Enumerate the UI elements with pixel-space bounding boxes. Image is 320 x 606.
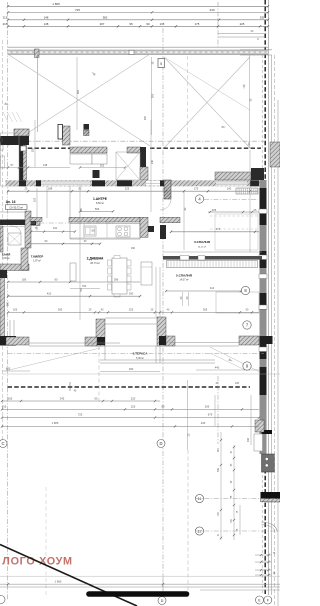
svg-text:БАНЯ: БАНЯ [2,253,11,257]
svg-text:190: 190 [131,247,136,250]
svg-text:265: 265 [203,308,208,312]
svg-text:215: 215 [3,15,8,19]
svg-text:СА 90,72 м²: СА 90,72 м² [9,206,23,209]
svg-text:260: 260 [7,301,10,306]
svg-text:440: 440 [215,366,220,370]
svg-text:135: 135 [160,22,165,26]
svg-text:3.СПАЛНЯ: 3.СПАЛНЯ [194,240,211,244]
svg-text:430: 430 [209,8,214,12]
svg-text:225: 225 [129,308,134,312]
svg-text:175: 175 [195,22,200,26]
svg-text:430: 430 [201,421,206,425]
svg-text:1 865: 1 865 [55,580,62,584]
svg-text:250: 250 [144,115,147,120]
svg-text:535: 535 [260,16,265,19]
svg-text:3,96 м²: 3,96 м² [2,257,10,260]
svg-text:290: 290 [129,292,134,296]
svg-text:105: 105 [13,308,18,312]
svg-text:148: 148 [44,15,49,19]
svg-text:225: 225 [131,404,136,408]
svg-text:C: C [1,441,4,446]
svg-text:679: 679 [208,412,213,416]
svg-text:265: 265 [205,404,210,408]
svg-text:95: 95 [129,22,133,26]
svg-text:1 865: 1 865 [52,2,60,6]
svg-text:410: 410 [210,286,215,290]
svg-text:265: 265 [58,308,63,312]
svg-text:14,07 м²: 14,07 м² [179,279,188,282]
svg-text:103: 103 [34,197,37,202]
svg-text:207: 207 [100,22,105,26]
svg-text:14,15 м²: 14,15 м² [198,246,207,249]
svg-text:185: 185 [22,277,27,281]
svg-text:185: 185 [32,147,35,152]
svg-text:Ап. 16: Ап. 16 [6,200,16,204]
svg-text:D: D [161,599,164,603]
svg-text:725: 725 [75,8,80,12]
svg-text:700: 700 [80,287,83,292]
svg-text:245: 245 [60,396,65,400]
svg-text:140: 140 [227,187,232,191]
svg-text:883: 883 [6,366,11,370]
svg-text:148: 148 [44,22,49,26]
svg-text:60: 60 [95,396,98,400]
svg-text:5: 5 [160,62,162,66]
svg-text:396: 396 [114,277,119,281]
svg-text:2.ДНЕВНА: 2.ДНЕВНА [87,257,104,261]
svg-text:225: 225 [240,22,245,26]
svg-text:405: 405 [212,208,217,212]
svg-text:80: 80 [162,404,165,408]
svg-text:305: 305 [151,93,155,98]
svg-text:360: 360 [76,89,80,94]
svg-text:28,73 м²: 28,73 м² [90,262,100,265]
svg-text:105: 105 [235,382,240,385]
svg-text:1.АНТРЕ: 1.АНТРЕ [93,197,108,201]
svg-text:302: 302 [100,163,105,167]
svg-text:700: 700 [82,284,87,288]
svg-text:175: 175 [194,187,199,191]
svg-text:7.КИЛЕР: 7.КИЛЕР [31,255,44,259]
svg-text:220: 220 [131,396,136,400]
svg-text:188: 188 [48,187,53,191]
svg-text:290: 290 [129,367,134,371]
svg-text:11: 11 [198,497,202,501]
svg-text:8,56 м²: 8,56 м² [96,202,104,205]
svg-text:460: 460 [247,437,250,442]
svg-text:102: 102 [53,227,58,230]
svg-text:725: 725 [78,412,83,416]
svg-text:1,87 м²: 1,87 м² [33,260,41,263]
svg-text:140: 140 [151,159,154,164]
svg-text:90: 90 [146,22,150,26]
svg-text:325: 325 [125,187,130,191]
svg-text:D: D [159,441,162,446]
svg-text:205: 205 [8,396,13,400]
svg-text:919: 919 [2,404,7,408]
svg-text:12: 12 [197,529,201,533]
svg-text:382: 382 [103,15,108,19]
svg-text:215: 215 [3,22,8,26]
svg-text:5.СПАЛНЯ: 5.СПАЛНЯ [176,274,193,278]
svg-text:148: 148 [43,163,48,167]
svg-text:596: 596 [95,207,100,211]
svg-text:1 865: 1 865 [52,421,59,425]
svg-text:410: 410 [47,292,52,296]
svg-text:5,36 м²: 5,36 м² [136,357,144,360]
svg-text:150: 150 [80,207,83,212]
